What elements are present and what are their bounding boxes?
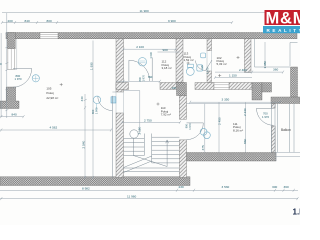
svg-text:11 900: 11 900 <box>140 9 150 13</box>
room 111 top edge line <box>187 103 272 105</box>
svg-text:105: 105 <box>46 86 51 90</box>
dim 1150 <box>214 76 252 79</box>
logo M&M red box <box>265 10 301 25</box>
door D1 entrance arc <box>13 69 32 88</box>
dimension texts <box>0 9 289 199</box>
window W3 in wall D <box>214 83 229 90</box>
wall G right of room 102 <box>245 39 252 73</box>
room label 110 <box>161 106 171 116</box>
svg-text:1 970: 1 970 <box>15 77 22 81</box>
fixture toilet WC <box>186 64 194 75</box>
svg-text:22,98 m²: 22,98 m² <box>46 96 58 100</box>
room label 112 <box>162 60 172 71</box>
svg-text:M&M: M&M <box>266 10 301 28</box>
wall stub below balcony door / radiator <box>271 126 275 153</box>
svg-text:475: 475 <box>201 145 205 150</box>
svg-text:3 350: 3 350 <box>222 97 230 101</box>
left vertical dim <box>1 13 7 118</box>
door size texts rotated <box>91 65 209 130</box>
dim 4562 <box>0 129 112 132</box>
balcony outline <box>272 104 295 153</box>
svg-text:11 960: 11 960 <box>127 195 137 199</box>
svg-text:1 970: 1 970 <box>206 67 210 74</box>
dim 900 <box>158 51 180 53</box>
svg-text:2 400: 2 400 <box>239 68 247 72</box>
svg-text:720: 720 <box>200 65 204 70</box>
svg-text:900: 900 <box>0 62 2 66</box>
door D6 wc arc <box>196 60 213 71</box>
dim line x 204.8 room 111 <box>204 104 206 153</box>
svg-text:2 100: 2 100 <box>136 45 144 49</box>
wall D interior horizontal segments <box>116 83 252 96</box>
svg-text:360: 360 <box>284 185 289 189</box>
svg-text:300: 300 <box>272 185 277 189</box>
plus marks <box>60 56 240 106</box>
fixture small sink <box>197 65 203 71</box>
svg-text:440: 440 <box>80 96 84 101</box>
svg-text:1 030: 1 030 <box>149 52 153 59</box>
svg-text:200: 200 <box>8 19 13 23</box>
svg-text:1 930: 1 930 <box>89 62 93 70</box>
svg-text:Balkon: Balkon <box>281 128 291 132</box>
svg-text:860: 860 <box>243 139 247 144</box>
svg-text:800: 800 <box>47 19 52 23</box>
svg-text:1 970: 1 970 <box>94 107 98 114</box>
wall corner blocks right <box>252 83 272 101</box>
dim 2400/360 <box>215 71 284 74</box>
svg-text:1,52 m²: 1,52 m² <box>184 58 194 62</box>
dimension lines <box>0 13 299 201</box>
svg-text:2 450: 2 450 <box>218 117 222 125</box>
svg-text:360: 360 <box>273 68 278 72</box>
wall right edge <box>291 67 298 97</box>
fixture circle C2 hall top <box>138 58 146 66</box>
bottom dim row 1 <box>0 189 298 191</box>
door D4 arc (hall to room 111) <box>187 123 204 140</box>
dim line 11900 <box>2 12 296 14</box>
wall bottom exterior <box>0 177 190 186</box>
svg-text:3 530: 3 530 <box>222 185 230 189</box>
closet lines left of hall <box>124 91 140 134</box>
wall left exterior upper <box>7 33 15 49</box>
wall stub above balcony door <box>271 104 275 109</box>
svg-text:9 900: 9 900 <box>168 19 176 23</box>
wall C interior <box>207 39 212 83</box>
svg-text:8,16 m²: 8,16 m² <box>233 128 243 132</box>
svg-text:1 150: 1 150 <box>229 73 237 77</box>
loggia top-right thin lines <box>255 39 298 67</box>
fixture washbasin <box>201 53 206 58</box>
stairs <box>124 134 180 173</box>
room label 105 <box>46 86 58 99</box>
dim 840 <box>0 115 25 118</box>
room label 102 <box>217 56 227 66</box>
svg-text:890: 890 <box>148 75 153 79</box>
dim line 9900 row <box>2 22 232 24</box>
window W2 left wall <box>8 39 17 70</box>
svg-text:840: 840 <box>25 19 30 23</box>
bottom dim row 2 <box>0 197 299 200</box>
svg-text:230: 230 <box>179 185 184 189</box>
dim 3350 <box>189 101 281 104</box>
logo blue band REALITY <box>263 26 300 33</box>
svg-text:2 150: 2 150 <box>138 126 142 134</box>
svg-text:1 950: 1 950 <box>263 60 267 68</box>
fixture circle C1 room 105 <box>32 75 39 82</box>
svg-text:2 540: 2 540 <box>82 140 86 148</box>
fixture circles room 111 <box>200 128 210 138</box>
dim 2100 <box>124 48 177 50</box>
svg-text:1 970: 1 970 <box>262 115 269 119</box>
wall bottom right exterior <box>187 153 277 162</box>
svg-text:Pokoj: Pokoj <box>46 91 54 95</box>
room label 111 <box>233 122 243 133</box>
wall balcony top <box>271 97 300 104</box>
svg-text:1 970: 1 970 <box>141 74 145 81</box>
svg-text:7,92 m²: 7,92 m² <box>161 112 171 116</box>
door D5 balcony arc <box>257 108 274 125</box>
wall A interior (left of hall) <box>116 39 124 178</box>
vertical dim 1930 <box>92 41 94 97</box>
wall left exterior lower block <box>0 87 19 109</box>
door D3 arc (room 112) <box>129 58 152 82</box>
vertical dims left-bottom <box>84 94 94 179</box>
vertical dim right 1950 <box>264 42 266 68</box>
room label 113 <box>184 52 194 63</box>
svg-text:290: 290 <box>172 86 177 90</box>
svg-text:3,18 m²: 3,18 m² <box>162 66 172 70</box>
electrical panel symbol <box>111 97 116 103</box>
stairs dim 2750 <box>121 121 181 124</box>
svg-text:1.N: 1.N <box>293 208 301 217</box>
window W1 top wall <box>40 33 58 39</box>
wall E interior (right of stairs) <box>179 96 186 178</box>
svg-text:840: 840 <box>12 113 17 117</box>
small dim near hall <box>116 80 161 83</box>
door D2 arc (room 105 to hall) <box>98 96 113 178</box>
door D1 size text <box>15 74 270 119</box>
svg-text:1 970: 1 970 <box>188 123 192 130</box>
svg-text:2 240: 2 240 <box>243 108 247 116</box>
svg-text:5,33 m²: 5,33 m² <box>217 62 227 66</box>
balcony bottom slab lines <box>276 152 300 161</box>
wall B interior <box>176 39 183 83</box>
fixture circle C3 near door D2 <box>93 96 100 111</box>
svg-text:8 982: 8 982 <box>82 187 90 191</box>
svg-text:4 562: 4 562 <box>50 126 58 130</box>
svg-text:REALITY: REALITY <box>267 28 301 33</box>
stairs circle <box>130 130 138 138</box>
wall top exterior <box>6 33 297 39</box>
svg-text:2 750: 2 750 <box>144 119 152 123</box>
vertical dims room 111 <box>218 103 220 153</box>
svg-text:900: 900 <box>163 48 168 52</box>
rotated dim texts <box>80 52 267 151</box>
svg-text:900: 900 <box>184 123 188 128</box>
